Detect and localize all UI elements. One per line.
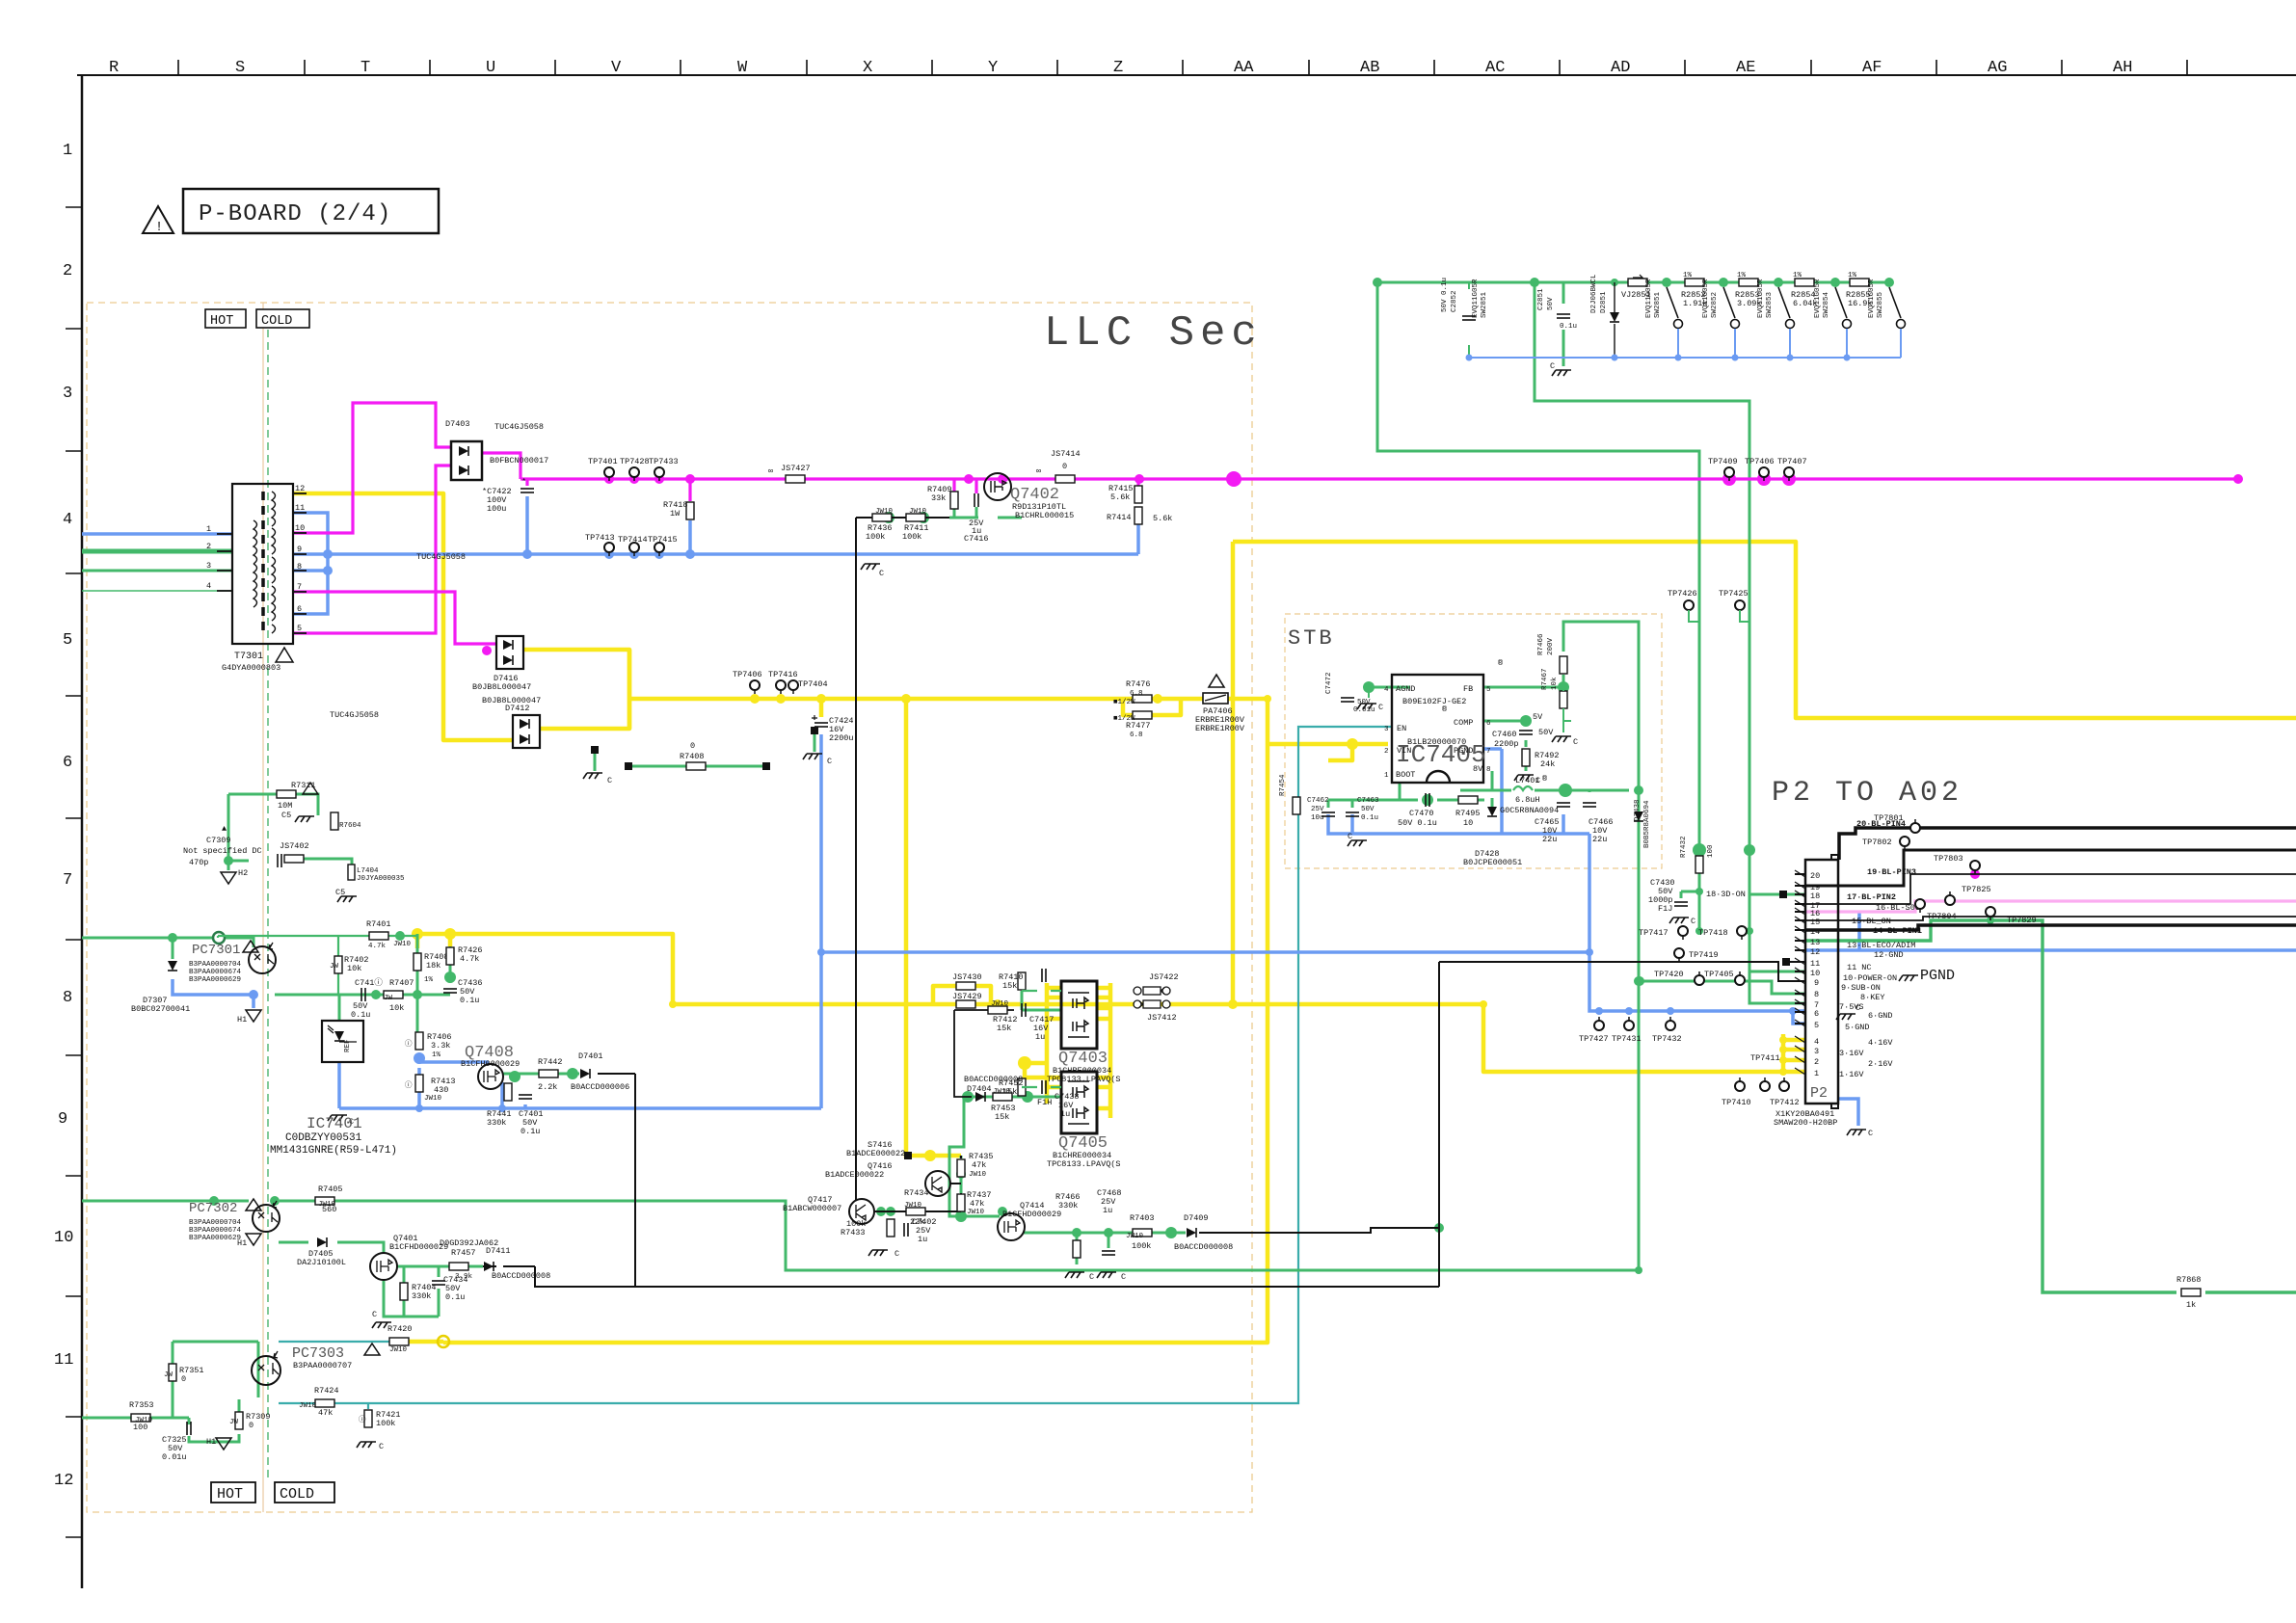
svg-text:*: * <box>521 477 526 487</box>
svg-text:50V: 50V <box>1547 297 1555 310</box>
svg-text:VIN: VIN <box>1397 746 1411 756</box>
svg-text:JW: JW <box>330 963 339 971</box>
svg-text:7: 7 <box>1486 748 1491 756</box>
svg-text:10M: 10M <box>278 801 292 811</box>
svg-text:∞: ∞ <box>768 466 773 476</box>
svg-text:B09E102FJ-GE2: B09E102FJ-GE2 <box>1402 697 1466 706</box>
svg-text:P2: P2 <box>1810 1085 1828 1102</box>
svg-text:4: 4 <box>1814 1037 1819 1047</box>
svg-text:JW10: JW10 <box>424 1095 442 1103</box>
svg-text:R7454: R7454 <box>1279 774 1287 796</box>
svg-text:0.1u: 0.1u <box>1361 814 1378 822</box>
svg-text:2·16V: 2·16V <box>1868 1059 1893 1069</box>
svg-text:3: 3 <box>1384 726 1389 733</box>
svg-text:TPC8133.LPAVQ(S: TPC8133.LPAVQ(S <box>1047 1075 1121 1084</box>
svg-text:B0B5R8A0694: B0B5R8A0694 <box>1643 800 1651 848</box>
svg-text:C7472: C7472 <box>1325 672 1333 694</box>
svg-text:100k: 100k <box>902 532 921 542</box>
svg-text:F1H: F1H <box>1037 1098 1052 1107</box>
svg-text:L7401: L7401 <box>1515 776 1540 785</box>
svg-text:5: 5 <box>297 624 302 633</box>
svg-text:X: X <box>863 59 872 77</box>
svg-text:B0JB8L000047: B0JB8L000047 <box>482 696 541 705</box>
svg-text:15·BL_ON: 15·BL_ON <box>1852 917 1891 926</box>
svg-text:C2852: C2852 <box>1451 290 1458 312</box>
svg-text:R7407: R7407 <box>389 978 414 988</box>
svg-text:■1/2W: ■1/2W <box>1113 699 1135 706</box>
svg-text:BOOT: BOOT <box>1396 770 1415 780</box>
svg-text:1%: 1% <box>432 1051 441 1059</box>
svg-text:C: C <box>1868 1129 1873 1138</box>
svg-text:TP7414: TP7414 <box>618 535 648 545</box>
svg-text:SW2855: SW2855 <box>1877 291 1884 318</box>
svg-text:JS7430: JS7430 <box>952 972 982 982</box>
svg-text:8·KEY: 8·KEY <box>1860 993 1885 1002</box>
svg-text:6: 6 <box>297 604 302 614</box>
svg-text:11 NC: 11 NC <box>1847 963 1872 972</box>
svg-text:10k: 10k <box>347 964 361 973</box>
svg-text:JW10: JW10 <box>393 941 412 948</box>
svg-text:15k: 15k <box>995 1112 1009 1122</box>
svg-text:12: 12 <box>295 484 305 493</box>
svg-text:TP7431: TP7431 <box>1612 1034 1642 1044</box>
svg-text:15k: 15k <box>1002 981 1017 991</box>
svg-text:0: 0 <box>1062 462 1067 471</box>
svg-text:13·BL-ECO/ADIM: 13·BL-ECO/ADIM <box>1847 941 1915 950</box>
svg-text:R7466: R7466 <box>1537 633 1545 655</box>
svg-text:TP7829: TP7829 <box>2007 916 2037 925</box>
svg-text:B3PAA0000704: B3PAA0000704 <box>189 961 242 969</box>
svg-text:R7495: R7495 <box>1455 809 1481 818</box>
svg-text:JW10: JW10 <box>875 508 894 516</box>
svg-text:MM1431GNRE(R59-L471): MM1431GNRE(R59-L471) <box>270 1145 397 1157</box>
svg-text:Y: Y <box>988 59 998 77</box>
svg-text:AE: AE <box>1736 59 1755 77</box>
svg-text:TP7425: TP7425 <box>1719 589 1749 599</box>
svg-text:R7433: R7433 <box>841 1228 866 1237</box>
svg-text:10k: 10k <box>1551 677 1559 690</box>
svg-text:7: 7 <box>63 871 72 890</box>
svg-text:TP7420: TP7420 <box>1654 970 1684 979</box>
svg-text:0.01u: 0.01u <box>162 1452 187 1462</box>
svg-text:33k: 33k <box>931 493 946 503</box>
svg-text:D7438: D7438 <box>1634 799 1642 821</box>
svg-text:TP7411: TP7411 <box>1750 1053 1780 1063</box>
svg-text:200V: 200V <box>1547 637 1555 655</box>
svg-text:6.8uH: 6.8uH <box>1515 795 1540 805</box>
svg-text:TP7825: TP7825 <box>1962 885 1991 894</box>
svg-text:EVQ11G05R: EVQ11G05R <box>1472 279 1480 318</box>
svg-text:TP7406: TP7406 <box>1745 457 1775 466</box>
svg-text:TP7419: TP7419 <box>1689 950 1719 960</box>
svg-text:C: C <box>1691 917 1695 926</box>
svg-text:JW10: JW10 <box>135 1417 153 1424</box>
svg-text:100k: 100k <box>866 532 885 542</box>
svg-text:24k: 24k <box>1540 759 1555 769</box>
svg-text:5·GND: 5·GND <box>1845 1023 1870 1032</box>
svg-text:R7476: R7476 <box>1126 679 1151 689</box>
svg-text:H1: H1 <box>237 1238 247 1248</box>
svg-text:JW10: JW10 <box>969 1171 987 1179</box>
svg-text:AC: AC <box>1485 59 1505 77</box>
svg-text:47k: 47k <box>318 1408 333 1418</box>
svg-text:C: C <box>1855 1003 1860 1013</box>
svg-text:SW2852: SW2852 <box>1711 292 1719 318</box>
svg-text:5.6k: 5.6k <box>1153 514 1172 523</box>
svg-text:R7420: R7420 <box>387 1324 413 1334</box>
svg-text:P-BOARD (2/4): P-BOARD (2/4) <box>199 201 391 227</box>
svg-text:EVQ11G05R: EVQ11G05R <box>1757 279 1765 318</box>
svg-text:R7457: R7457 <box>451 1248 476 1258</box>
svg-text:JW: JW <box>164 1371 174 1379</box>
svg-text:6.8: 6.8 <box>1130 732 1143 739</box>
svg-text:TP7412: TP7412 <box>1770 1098 1800 1107</box>
svg-text:4.7k: 4.7k <box>460 954 479 964</box>
svg-text:50V: 50V <box>1538 728 1554 737</box>
svg-text:AB: AB <box>1360 59 1379 77</box>
svg-text:0: 0 <box>249 1421 254 1430</box>
svg-text:2200u: 2200u <box>829 733 854 743</box>
svg-text:ⓘ: ⓘ <box>359 1415 366 1424</box>
svg-text:R: R <box>109 59 119 77</box>
svg-text:0.1u: 0.1u <box>460 996 479 1005</box>
svg-text:U: U <box>486 59 495 77</box>
svg-text:T: T <box>360 59 370 77</box>
svg-text:TP7801: TP7801 <box>1874 813 1904 823</box>
svg-text:JW: JW <box>384 995 393 1002</box>
svg-text:B3PAA0000707: B3PAA0000707 <box>293 1361 352 1370</box>
svg-text:TUC4GJ5058: TUC4GJ5058 <box>416 552 466 562</box>
svg-text:▲: ▲ <box>222 824 227 834</box>
svg-text:D7401: D7401 <box>578 1051 603 1061</box>
svg-text:PC7302: PC7302 <box>189 1201 237 1216</box>
svg-text:8: 8 <box>1814 990 1819 999</box>
svg-text:20: 20 <box>1810 871 1820 881</box>
svg-text:B1CFHD000029: B1CFHD000029 <box>1002 1210 1061 1219</box>
svg-text:JS7427: JS7427 <box>781 464 811 473</box>
svg-text:R7604: R7604 <box>339 822 361 830</box>
svg-text:11: 11 <box>54 1351 73 1370</box>
svg-text:50V: 50V <box>1361 806 1375 813</box>
svg-text:R7432: R7432 <box>1680 836 1688 858</box>
svg-text:12·GND: 12·GND <box>1874 950 1904 960</box>
svg-text:JW10: JW10 <box>389 1346 408 1354</box>
svg-text:13: 13 <box>1810 938 1820 947</box>
svg-text:TP7410: TP7410 <box>1722 1098 1751 1107</box>
svg-text:JW: JW <box>229 1419 239 1426</box>
svg-text:D7403: D7403 <box>445 419 470 429</box>
svg-text:JW10: JW10 <box>967 1209 985 1216</box>
svg-text:B0ACCD000006: B0ACCD000006 <box>571 1082 629 1092</box>
svg-text:EVQ11G05R: EVQ11G05R <box>1702 279 1710 318</box>
svg-text:V: V <box>611 59 622 77</box>
svg-text:4: 4 <box>206 581 211 591</box>
svg-text:C7460: C7460 <box>1492 730 1517 739</box>
svg-text:B3PAA0000629: B3PAA0000629 <box>189 976 241 984</box>
svg-text:TUC4GJ5058: TUC4GJ5058 <box>330 710 379 720</box>
svg-text:HOT: HOT <box>210 314 233 329</box>
svg-text:B1ABCW000007: B1ABCW000007 <box>783 1204 841 1213</box>
svg-text:10k: 10k <box>389 1003 404 1013</box>
svg-text:JS7402: JS7402 <box>280 841 309 851</box>
svg-text:PC7301: PC7301 <box>192 943 240 958</box>
svg-text:C7463: C7463 <box>1357 797 1379 805</box>
svg-text:3.3k: 3.3k <box>431 1041 450 1051</box>
svg-text:JW10: JW10 <box>904 1202 922 1210</box>
svg-text:F1J: F1J <box>1658 904 1672 914</box>
svg-text:47k: 47k <box>970 1199 984 1209</box>
svg-text:EVQ11G05R: EVQ11G05R <box>1645 279 1653 318</box>
svg-text:22u: 22u <box>1592 835 1607 844</box>
svg-text:STB: STB <box>1288 626 1335 651</box>
svg-text:JW10: JW10 <box>909 508 927 516</box>
svg-text:0: 0 <box>181 1374 186 1384</box>
svg-text:330k: 330k <box>1058 1201 1078 1211</box>
svg-text:4: 4 <box>1384 686 1389 694</box>
svg-text:50V 0.1u: 50V 0.1u <box>1398 818 1437 828</box>
svg-text:JS7422: JS7422 <box>1149 972 1179 982</box>
svg-text:9: 9 <box>297 545 302 554</box>
svg-text:HOT: HOT <box>217 1486 243 1503</box>
svg-text:TP7416: TP7416 <box>768 670 798 679</box>
svg-text:JW10: JW10 <box>318 1201 336 1209</box>
svg-text:W: W <box>737 59 748 77</box>
svg-text:R7408: R7408 <box>680 752 705 761</box>
svg-text:6: 6 <box>1486 720 1491 728</box>
svg-text:R7434: R7434 <box>904 1188 929 1198</box>
svg-text:C2851: C2851 <box>1537 288 1545 310</box>
svg-text:B0BC02700041: B0BC02700041 <box>131 1004 190 1014</box>
svg-text:TP7426: TP7426 <box>1668 589 1697 599</box>
svg-text:10: 10 <box>54 1229 73 1247</box>
svg-text:1%: 1% <box>1793 272 1802 279</box>
svg-text:C: C <box>1378 703 1383 712</box>
svg-text:15: 15 <box>1810 918 1820 927</box>
svg-text:AG: AG <box>1988 59 2007 77</box>
svg-text:17·BL-PIN2: 17·BL-PIN2 <box>1847 892 1896 902</box>
svg-text:D7409: D7409 <box>1184 1213 1209 1223</box>
svg-text:B3PAA0000704: B3PAA0000704 <box>189 1219 242 1227</box>
svg-text:330k: 330k <box>412 1291 431 1301</box>
svg-text:3: 3 <box>206 561 211 571</box>
svg-text:Not specified DC: Not specified DC <box>183 846 262 856</box>
svg-text:PGND: PGND <box>1454 746 1473 756</box>
svg-text:TP7405: TP7405 <box>1704 970 1734 979</box>
svg-text:AH: AH <box>2113 59 2132 77</box>
svg-text:1%: 1% <box>1737 272 1747 279</box>
svg-text:47k: 47k <box>972 1160 986 1170</box>
svg-text:COLD: COLD <box>261 314 292 329</box>
svg-text:8V: 8V <box>1473 764 1483 774</box>
svg-text:2: 2 <box>206 542 211 551</box>
svg-text:8: 8 <box>63 989 72 1007</box>
svg-text:1u: 1u <box>1035 1032 1045 1042</box>
svg-text:6·GND: 6·GND <box>1868 1011 1893 1021</box>
svg-text:B0JCPE000051: B0JCPE000051 <box>1463 858 1522 867</box>
svg-text:TPC8133.LPAVQ(S: TPC8133.LPAVQ(S <box>1047 1159 1121 1169</box>
svg-text:G4DYA0000803: G4DYA0000803 <box>222 663 280 673</box>
svg-text:19·BL-PIN3: 19·BL-PIN3 <box>1867 867 1916 877</box>
svg-text:C7470: C7470 <box>1409 809 1434 818</box>
svg-text:5: 5 <box>1486 686 1491 694</box>
svg-text:430: 430 <box>434 1085 448 1095</box>
svg-text:9: 9 <box>1814 978 1819 988</box>
svg-text:B1ADCE000022: B1ADCE000022 <box>846 1149 905 1158</box>
svg-text:TP7432: TP7432 <box>1652 1034 1682 1044</box>
svg-text:H2: H2 <box>238 868 248 878</box>
svg-text:TP7428: TP7428 <box>620 457 650 466</box>
svg-text:TP7417: TP7417 <box>1639 928 1669 938</box>
svg-text:DA2J10100L: DA2J10100L <box>297 1258 346 1267</box>
svg-text:C: C <box>1121 1272 1126 1282</box>
svg-text:SW2854: SW2854 <box>1823 291 1830 318</box>
svg-text:B0ACCD000008: B0ACCD000008 <box>492 1271 550 1281</box>
svg-text:1%: 1% <box>1683 272 1693 279</box>
svg-text:®: ® <box>1442 705 1447 714</box>
svg-text:18·3D-ON: 18·3D-ON <box>1706 890 1746 899</box>
svg-text:B0FBCN000017: B0FBCN000017 <box>490 456 548 466</box>
svg-text:C7309: C7309 <box>206 836 231 845</box>
svg-text:TP7415: TP7415 <box>648 535 678 545</box>
svg-text:FB: FB <box>1463 684 1473 694</box>
svg-text:10: 10 <box>1810 969 1820 978</box>
svg-text:B0ACCD000008: B0ACCD000008 <box>964 1075 1023 1084</box>
svg-text:TP7427: TP7427 <box>1579 1034 1609 1044</box>
svg-text:C7462: C7462 <box>1307 797 1329 805</box>
svg-text:JS7412: JS7412 <box>1147 1013 1177 1023</box>
svg-text:R7353: R7353 <box>129 1400 154 1410</box>
svg-text:1%: 1% <box>1848 272 1857 279</box>
svg-text:1: 1 <box>1384 772 1389 780</box>
svg-text:7: 7 <box>297 582 302 592</box>
svg-text:EVQ11G05R: EVQ11G05R <box>1868 279 1876 318</box>
svg-text:SW2853: SW2853 <box>1766 291 1774 318</box>
svg-text:R7868: R7868 <box>2176 1275 2202 1285</box>
svg-text:Z: Z <box>1113 59 1123 77</box>
svg-text:9: 9 <box>58 1110 67 1129</box>
svg-text:R7424: R7424 <box>314 1386 339 1396</box>
svg-text:TP7804: TP7804 <box>1927 912 1957 921</box>
svg-text:3: 3 <box>1814 1047 1819 1056</box>
svg-text:T7301: T7301 <box>234 652 263 662</box>
svg-text:AA: AA <box>1234 59 1254 77</box>
svg-text:10·POWER-ON: 10·POWER-ON <box>1843 973 1897 983</box>
svg-text:JS7429: JS7429 <box>952 992 982 1001</box>
svg-text:SW2851: SW2851 <box>1654 291 1662 318</box>
svg-text:12: 12 <box>54 1472 73 1490</box>
svg-text:11: 11 <box>1810 959 1820 969</box>
svg-text:JS7414: JS7414 <box>1051 449 1081 459</box>
svg-text:L7404: L7404 <box>357 867 379 875</box>
svg-text:18: 18 <box>1810 891 1820 901</box>
svg-text:J0JYA000035: J0JYA000035 <box>357 875 405 883</box>
svg-text:C741ⓘ: C741ⓘ <box>355 978 383 988</box>
svg-text:B1ADCE000022: B1ADCE000022 <box>825 1170 884 1180</box>
svg-text:3.9k: 3.9k <box>455 1273 473 1281</box>
svg-text:TUC4GJ5058: TUC4GJ5058 <box>494 422 544 432</box>
svg-text:C: C <box>1550 361 1555 371</box>
svg-text:R7401: R7401 <box>366 919 391 929</box>
svg-text:ⓘ: ⓘ <box>405 1039 413 1049</box>
svg-text:100k: 100k <box>376 1419 395 1428</box>
svg-text:2200p: 2200p <box>1494 739 1519 749</box>
svg-text:C: C <box>1348 832 1352 841</box>
svg-text:C: C <box>607 776 612 785</box>
svg-text:AF: AF <box>1862 59 1882 77</box>
svg-text:100u: 100u <box>487 504 506 514</box>
svg-text:D2J06BWCL: D2J06BWCL <box>1590 274 1598 313</box>
svg-text:P2 TO A02: P2 TO A02 <box>1772 777 1962 810</box>
svg-text:14·BL-PIN1: 14·BL-PIN1 <box>1873 926 1922 936</box>
svg-text:12: 12 <box>1810 947 1820 957</box>
svg-text:EN: EN <box>1397 724 1406 733</box>
svg-text:1u: 1u <box>1060 1109 1070 1119</box>
svg-text:4·16V: 4·16V <box>1868 1038 1893 1048</box>
svg-text:TP7802: TP7802 <box>1862 838 1892 847</box>
svg-text:B1CHRL000015: B1CHRL000015 <box>1015 511 1074 520</box>
svg-text:PGND: PGND <box>1920 968 1955 984</box>
svg-text:B3PAA0000674: B3PAA0000674 <box>189 1227 242 1235</box>
svg-text:2: 2 <box>1814 1057 1819 1067</box>
svg-text:JW10: JW10 <box>991 1000 1009 1008</box>
svg-text:2: 2 <box>1384 748 1389 756</box>
svg-text:C: C <box>1573 737 1578 747</box>
svg-text:B3PAA0000629: B3PAA0000629 <box>189 1235 241 1242</box>
svg-text:■1/2W: ■1/2W <box>1113 715 1135 723</box>
svg-text:2.2k: 2.2k <box>538 1082 557 1092</box>
svg-text:C: C <box>827 757 832 766</box>
svg-text:JW10: JW10 <box>1126 1233 1144 1240</box>
svg-text:10: 10 <box>295 523 305 533</box>
svg-text:®: ® <box>1498 658 1503 668</box>
svg-text:SW2851: SW2851 <box>1481 291 1488 318</box>
svg-text:0.1u: 0.1u <box>445 1292 465 1302</box>
svg-text:B0ACCD000008: B0ACCD000008 <box>1174 1242 1233 1252</box>
svg-text:0.1u: 0.1u <box>521 1127 540 1136</box>
svg-text:H1: H1 <box>206 1437 216 1447</box>
svg-text:D7404: D7404 <box>967 1084 992 1094</box>
svg-text:0.1u: 0.1u <box>1560 323 1577 331</box>
svg-text:1W: 1W <box>670 509 681 519</box>
svg-text:!: ! <box>155 221 163 235</box>
svg-text:EVQ11G05R: EVQ11G05R <box>1814 279 1822 318</box>
svg-text:100k: 100k <box>1132 1241 1151 1251</box>
svg-text:3: 3 <box>63 385 72 403</box>
svg-text:TP7406: TP7406 <box>733 670 762 679</box>
svg-text:TP7803: TP7803 <box>1934 854 1963 864</box>
svg-text:ⓘ: ⓘ <box>405 1080 413 1090</box>
svg-text:AGND: AGND <box>1396 684 1415 694</box>
svg-text:C5: C5 <box>281 811 291 820</box>
svg-text:S: S <box>235 59 245 77</box>
svg-text:15k: 15k <box>997 1024 1011 1033</box>
svg-text:10u: 10u <box>1311 814 1324 822</box>
svg-text:AD: AD <box>1611 59 1630 77</box>
svg-text:C: C <box>379 1442 384 1451</box>
svg-text:R7414: R7414 <box>1107 513 1132 522</box>
svg-text:22u: 22u <box>1542 835 1557 844</box>
svg-text:TP7413: TP7413 <box>585 533 615 543</box>
svg-text:1k: 1k <box>2186 1300 2196 1310</box>
svg-text:1: 1 <box>63 142 72 160</box>
svg-text:1u: 1u <box>918 1235 927 1244</box>
svg-text:TP7409: TP7409 <box>1708 457 1738 466</box>
svg-text:∞: ∞ <box>1036 466 1041 476</box>
svg-text:R7467: R7467 <box>1541 668 1549 690</box>
svg-text:0.1u: 0.1u <box>351 1010 370 1020</box>
svg-text:9·SUB-ON: 9·SUB-ON <box>1841 983 1881 993</box>
svg-text:D0GD392JA062: D0GD392JA062 <box>440 1238 498 1248</box>
